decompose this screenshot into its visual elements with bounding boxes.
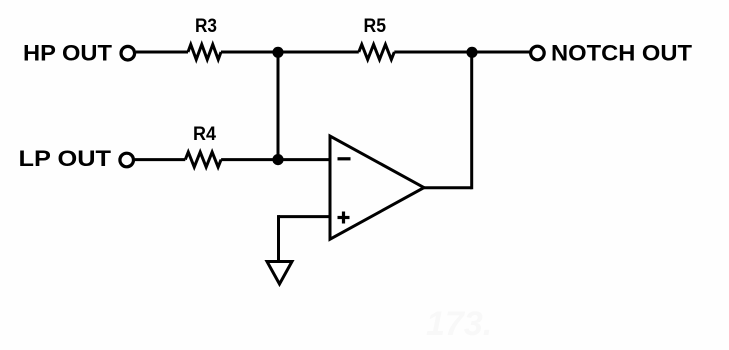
- svg-text:NOTCH OUT: NOTCH OUT: [551, 41, 692, 66]
- terminal HP OUT: [121, 46, 135, 60]
- node B junction dot: [466, 47, 477, 58]
- resistor R4: [185, 152, 221, 167]
- wire R5 to node B: [394, 51, 472, 54]
- node A junction dot: [272, 47, 283, 58]
- wire R4 to op-amp inverting input (through node C): [221, 158, 330, 161]
- resistor R3: [188, 45, 221, 60]
- wire down to ground: [277, 215, 280, 260]
- svg-text:R5: R5: [364, 16, 387, 37]
- wire node B to NOTCH OUT terminal: [472, 51, 530, 54]
- terminal NOTCH OUT: [531, 46, 545, 60]
- svg-text:173.: 173.: [426, 305, 492, 343]
- wire HP terminal to R3: [136, 51, 188, 54]
- op-amp plus sign (non-inverting input): [338, 216, 350, 219]
- ground: [267, 262, 292, 285]
- terminal LP OUT: [120, 153, 134, 167]
- svg-text:LP OUT: LP OUT: [19, 146, 112, 171]
- svg-text:R4: R4: [193, 124, 216, 145]
- op-amp minus sign (inverting input): [338, 157, 351, 160]
- wire node A down to node C: [277, 52, 280, 160]
- op-amp U1 triangle: [330, 136, 424, 239]
- wire LP terminal to R4: [135, 158, 185, 161]
- svg-text:HP OUT: HP OUT: [23, 41, 112, 66]
- wire R3 to R5 (through node A): [221, 51, 359, 54]
- resistor R5: [359, 45, 395, 60]
- wire op-amp output: [424, 186, 472, 189]
- node C junction dot: [272, 154, 283, 165]
- wire feedback up to node B: [470, 52, 473, 189]
- wire non-inverting input to ground drop: [279, 215, 331, 218]
- svg-text:R3: R3: [195, 16, 217, 37]
